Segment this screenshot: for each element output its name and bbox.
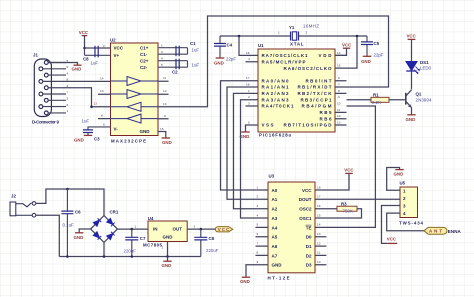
connector J2 power jack bbox=[10, 194, 36, 218]
svg-text:Q1: Q1 bbox=[416, 91, 422, 96]
svg-text:GND: GND bbox=[162, 263, 172, 268]
svg-text:GND: GND bbox=[74, 235, 84, 240]
svg-text:2: 2 bbox=[103, 44, 105, 48]
svg-text:4: 4 bbox=[67, 71, 69, 75]
svg-text:RB6: RB6 bbox=[320, 116, 332, 121]
svg-text:VDD: VDD bbox=[319, 53, 333, 58]
svg-text:VCC: VCC bbox=[342, 43, 352, 48]
svg-text:GND: GND bbox=[240, 279, 250, 284]
svg-text:C2+: C2+ bbox=[140, 59, 149, 64]
svg-text:1: 1 bbox=[161, 44, 163, 48]
svg-text:C8: C8 bbox=[209, 236, 215, 241]
pin stubs PIC right bbox=[335, 55, 347, 125]
wire DB9 pin3 to MAX232 pin13 bbox=[48, 88, 110, 107]
svg-text:1uF: 1uF bbox=[192, 48, 200, 53]
ic U3 HT-12E bbox=[268, 174, 316, 281]
power VCC HT-12E bbox=[315, 168, 354, 191]
svg-text:D3: D3 bbox=[306, 263, 312, 268]
svg-text:GND: GND bbox=[140, 129, 151, 134]
svg-text:V-: V- bbox=[114, 127, 119, 132]
ic U4 MC7805 bbox=[143, 216, 187, 257]
power VCC PIC VDD bbox=[335, 43, 352, 56]
svg-text:9: 9 bbox=[164, 114, 166, 118]
svg-text:RA6/OSC2/CLKO: RA6/OSC2/CLKO bbox=[284, 66, 332, 71]
svg-text:ENNA: ENNA bbox=[448, 229, 462, 234]
svg-text:2: 2 bbox=[248, 95, 250, 99]
crystal Y1 and oscillator net bbox=[220, 24, 367, 69]
svg-text:C5: C5 bbox=[374, 41, 380, 46]
svg-text:GND: GND bbox=[361, 59, 371, 64]
svg-text:XTAL: XTAL bbox=[290, 41, 304, 46]
svg-text:7: 7 bbox=[257, 241, 259, 245]
capacitor C3 on V- bbox=[74, 119, 111, 144]
svg-text:10: 10 bbox=[100, 89, 104, 93]
svg-text:GND: GND bbox=[272, 263, 283, 268]
svg-text:VSS: VSS bbox=[262, 123, 274, 128]
pin stubs MAX232 left bbox=[98, 94, 111, 118]
svg-text:0.1uF: 0.1uF bbox=[63, 223, 75, 228]
svg-text:CR1: CR1 bbox=[110, 209, 119, 214]
svg-text:12: 12 bbox=[163, 89, 167, 93]
ground rail wire bbox=[59, 256, 201, 258]
svg-text:J2: J2 bbox=[11, 194, 16, 199]
svg-text:220uF: 220uF bbox=[206, 248, 219, 253]
svg-text:C2: C2 bbox=[172, 70, 178, 75]
svg-text:C4: C4 bbox=[227, 43, 233, 48]
ground PIC VSS bbox=[240, 125, 259, 139]
svg-text:GND: GND bbox=[214, 61, 224, 66]
connector J1 D-Connector 9 bbox=[34, 59, 66, 117]
svg-text:RB0/INT: RB0/INT bbox=[306, 78, 332, 83]
svg-text:PIC16F628a: PIC16F628a bbox=[259, 133, 292, 138]
svg-text:C6: C6 bbox=[75, 210, 81, 215]
svg-text:17: 17 bbox=[246, 76, 250, 80]
svg-text:A2: A2 bbox=[272, 207, 278, 212]
svg-text:12: 12 bbox=[317, 241, 321, 245]
svg-text:13: 13 bbox=[94, 102, 98, 106]
svg-text:ANT: ANT bbox=[429, 229, 442, 234]
ic U5 TWS-434 bbox=[399, 181, 424, 226]
svg-text:RB5: RB5 bbox=[320, 110, 332, 115]
led DS1 bbox=[406, 60, 432, 89]
svg-text:14: 14 bbox=[100, 77, 104, 81]
svg-text:R3: R3 bbox=[341, 202, 347, 207]
svg-text:DS1: DS1 bbox=[420, 60, 429, 65]
svg-text:IN: IN bbox=[153, 226, 158, 231]
svg-text:VCC: VCC bbox=[387, 236, 397, 241]
svg-text:8: 8 bbox=[257, 251, 259, 255]
svg-text:GND: GND bbox=[162, 140, 172, 145]
svg-text:2: 2 bbox=[257, 195, 259, 199]
svg-text:A0: A0 bbox=[272, 188, 278, 193]
power VCC LED bbox=[407, 34, 417, 62]
ground Q1 bbox=[406, 115, 416, 122]
wire jack bottom to ground rail bbox=[36, 215, 60, 256]
svg-text:LED0: LED0 bbox=[420, 65, 432, 70]
svg-text:1: 1 bbox=[257, 185, 259, 189]
svg-text:GND: GND bbox=[74, 138, 84, 143]
pin stubs MAX232 right bbox=[158, 81, 169, 119]
svg-text:C7: C7 bbox=[140, 236, 146, 241]
svg-text:10: 10 bbox=[317, 260, 321, 264]
wire jack top to bridge top bbox=[36, 189, 104, 216]
svg-text:C1-: C1- bbox=[140, 52, 148, 57]
power VCC MAX232 bbox=[79, 30, 89, 49]
svg-text:2N3904: 2N3904 bbox=[416, 97, 433, 102]
svg-text:15: 15 bbox=[160, 127, 164, 131]
svg-text:OSC1: OSC1 bbox=[299, 216, 312, 221]
svg-text:VCC: VCC bbox=[79, 30, 89, 35]
svg-text:U1: U1 bbox=[258, 43, 264, 48]
ground TWS-434 bbox=[387, 168, 404, 191]
svg-text:U4: U4 bbox=[148, 216, 154, 221]
svg-text:VCC: VCC bbox=[218, 227, 230, 232]
svg-text:6: 6 bbox=[257, 232, 259, 236]
svg-text:18: 18 bbox=[317, 185, 321, 189]
svg-text:RA5/MCLR/VPP: RA5/MCLR/VPP bbox=[262, 59, 306, 64]
capacitor C5 bbox=[361, 36, 384, 64]
svg-text:D1: D1 bbox=[306, 244, 312, 249]
svg-text:R1: R1 bbox=[373, 92, 379, 97]
svg-text:D2: D2 bbox=[306, 253, 312, 258]
svg-text:1uF: 1uF bbox=[192, 63, 200, 68]
ground DB9 pin5 bbox=[48, 63, 81, 72]
resistor R3 bbox=[315, 202, 362, 218]
svg-text:OSC2: OSC2 bbox=[299, 207, 312, 212]
svg-text:Y1: Y1 bbox=[289, 25, 295, 30]
transistor Q1 2N3904 bbox=[406, 90, 432, 115]
svg-text:A4: A4 bbox=[272, 225, 278, 230]
svg-text:4: 4 bbox=[248, 57, 250, 61]
svg-text:VCC: VCC bbox=[407, 34, 417, 39]
wire bridge to regulator bbox=[117, 228, 148, 230]
svg-text:RB1/RX/DT: RB1/RX/DT bbox=[298, 85, 332, 90]
svg-text:18: 18 bbox=[246, 82, 250, 86]
capacitor C7 bbox=[124, 229, 146, 256]
svg-text:A1: A1 bbox=[272, 197, 278, 202]
svg-text:2: 2 bbox=[67, 97, 69, 101]
pin stubs PIC left bbox=[246, 62, 259, 106]
power VCC TWS-434 bbox=[382, 206, 401, 244]
svg-text:MC7805: MC7805 bbox=[143, 243, 163, 248]
svg-text:5: 5 bbox=[248, 120, 250, 124]
svg-text:VCC: VCC bbox=[302, 188, 312, 193]
svg-text:D0: D0 bbox=[306, 235, 312, 240]
svg-text:GND: GND bbox=[406, 117, 416, 122]
svg-text:C1+: C1+ bbox=[140, 46, 149, 51]
ground bridge left bbox=[74, 229, 91, 240]
svg-text:RA7/OSC1/CLK1: RA7/OSC1/CLK1 bbox=[262, 53, 308, 58]
svg-text:2: 2 bbox=[162, 246, 164, 250]
ic U1 PIC16F628A bbox=[258, 43, 335, 138]
svg-text:VCC: VCC bbox=[344, 168, 354, 173]
svg-text:15: 15 bbox=[337, 64, 341, 68]
svg-text:GND: GND bbox=[163, 235, 174, 240]
wire bridge bottom to rail bbox=[103, 242, 105, 256]
capacitor C4 bbox=[214, 36, 236, 66]
pin stubs HT-12E right bbox=[315, 237, 326, 265]
svg-text:GND: GND bbox=[72, 67, 82, 72]
svg-text:9: 9 bbox=[338, 95, 340, 99]
svg-text:3: 3 bbox=[248, 101, 250, 105]
svg-text:12: 12 bbox=[337, 114, 341, 118]
svg-text:A5: A5 bbox=[272, 235, 278, 240]
svg-text:RB3/CCP1: RB3/CCP1 bbox=[301, 97, 332, 102]
svg-text:1uF: 1uF bbox=[82, 119, 90, 124]
svg-text:5: 5 bbox=[257, 223, 259, 227]
svg-text:2: 2 bbox=[306, 31, 308, 35]
svg-text:V+: V+ bbox=[114, 53, 120, 58]
svg-text:14: 14 bbox=[337, 51, 341, 55]
svg-text:4: 4 bbox=[161, 57, 163, 61]
svg-text:A7: A7 bbox=[272, 253, 278, 258]
svg-text:750K: 750K bbox=[343, 209, 353, 214]
capacitor C2 bbox=[158, 57, 199, 75]
svg-text:22pF: 22pF bbox=[374, 52, 384, 57]
svg-text:4: 4 bbox=[257, 213, 259, 217]
svg-text:1: 1 bbox=[278, 31, 280, 35]
svg-text:1uF: 1uF bbox=[91, 61, 99, 66]
svg-text:15: 15 bbox=[317, 213, 321, 217]
svg-text:TE: TE bbox=[306, 225, 312, 230]
svg-text:16: 16 bbox=[317, 204, 321, 208]
capacitor C8 VCC to V+ bbox=[83, 44, 111, 66]
svg-text:C3: C3 bbox=[94, 137, 100, 142]
wire DB9 pin8 to MAX232 pin14 bbox=[43, 80, 111, 82]
port ANTENNA bbox=[387, 213, 462, 234]
svg-text:A3: A3 bbox=[272, 216, 278, 221]
buffer triangles bbox=[111, 77, 159, 124]
svg-text:3: 3 bbox=[161, 50, 163, 54]
port VCC power output bbox=[215, 227, 232, 233]
svg-text:9: 9 bbox=[67, 65, 69, 69]
svg-text:3: 3 bbox=[194, 224, 196, 228]
svg-text:RB7/T1OSI/PGD: RB7/T1OSI/PGD bbox=[284, 123, 333, 128]
capacitor C6 bbox=[61, 189, 81, 257]
svg-text:13: 13 bbox=[317, 232, 321, 236]
svg-text:16MHZ: 16MHZ bbox=[303, 24, 319, 29]
wires PIC RA0-RA3 to HT-12E A0-A3 bbox=[221, 81, 269, 190]
svg-text:220uF: 220uF bbox=[124, 249, 137, 254]
svg-text:8: 8 bbox=[101, 114, 103, 118]
svg-text:11: 11 bbox=[317, 251, 320, 255]
ground HT-12E bbox=[240, 265, 268, 284]
svg-text:13: 13 bbox=[337, 120, 341, 124]
svg-text:9: 9 bbox=[257, 260, 259, 264]
capacitor C8 bbox=[194, 229, 218, 256]
svg-text:10: 10 bbox=[337, 101, 341, 105]
svg-text:1: 1 bbox=[248, 89, 250, 93]
svg-text:3: 3 bbox=[257, 204, 259, 208]
svg-text:1: 1 bbox=[67, 109, 69, 113]
svg-text:U2: U2 bbox=[110, 38, 116, 43]
svg-text:MAX232CPE: MAX232CPE bbox=[111, 138, 146, 143]
ground MAX232 pin15 bbox=[158, 127, 172, 145]
ic U2 MAX232CPE bbox=[110, 38, 158, 144]
svg-text:8: 8 bbox=[338, 89, 340, 93]
svg-text:14: 14 bbox=[317, 223, 321, 227]
svg-text:J1: J1 bbox=[33, 53, 38, 58]
svg-text:U3: U3 bbox=[269, 174, 275, 179]
svg-text:A6: A6 bbox=[272, 244, 278, 249]
svg-text:6: 6 bbox=[67, 103, 69, 107]
svg-text:TWS-434: TWS-434 bbox=[399, 221, 424, 226]
svg-text:U5: U5 bbox=[400, 181, 406, 186]
svg-text:11: 11 bbox=[163, 76, 166, 80]
resistor R1 bbox=[347, 92, 406, 105]
svg-text:6: 6 bbox=[103, 123, 105, 127]
wire regulator out to VCC port bbox=[187, 228, 215, 230]
svg-text:C8: C8 bbox=[83, 57, 89, 62]
svg-text:C1: C1 bbox=[190, 41, 196, 46]
svg-text:5: 5 bbox=[161, 63, 163, 67]
svg-text:6: 6 bbox=[338, 76, 340, 80]
svg-text:7: 7 bbox=[67, 90, 69, 94]
pin stubs HT-12E left bbox=[256, 227, 269, 255]
svg-text:1: 1 bbox=[135, 224, 137, 228]
svg-text:DOUT: DOUT bbox=[299, 197, 312, 202]
wire DOUT HT-12E to TWS-434 bbox=[315, 198, 400, 200]
svg-text:7: 7 bbox=[338, 82, 340, 86]
capacitor C1 bbox=[158, 41, 199, 56]
ground regulator bbox=[162, 257, 172, 269]
svg-text:2.2K: 2.2K bbox=[372, 100, 381, 105]
svg-text:11: 11 bbox=[337, 108, 340, 112]
svg-text:D-Connector 9: D-Connector 9 bbox=[32, 120, 60, 125]
svg-text:RA4/T0CK1: RA4/T0CK1 bbox=[262, 104, 294, 109]
svg-text:22pF: 22pF bbox=[226, 56, 236, 61]
svg-text:17: 17 bbox=[317, 195, 321, 199]
wire RX net MAX232 pin12 to PIC RB1 bbox=[158, 16, 389, 107]
bridge rectifier CR1 bbox=[91, 209, 119, 242]
wire TE net PIC RB4 to HT-12E TE bbox=[315, 106, 375, 227]
svg-text:13: 13 bbox=[163, 102, 167, 106]
svg-text:OUT: OUT bbox=[173, 226, 183, 231]
svg-text:GND: GND bbox=[394, 172, 404, 177]
svg-text:VCC: VCC bbox=[114, 46, 124, 51]
svg-text:16: 16 bbox=[246, 51, 250, 55]
svg-text:C2-: C2- bbox=[140, 65, 148, 70]
